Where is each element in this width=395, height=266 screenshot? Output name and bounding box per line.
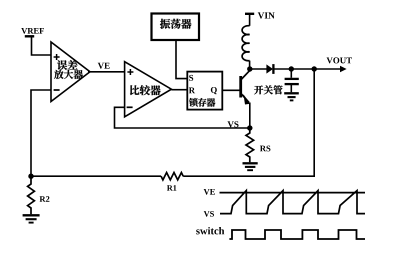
resistor RS zigzag — [246, 128, 254, 162]
label R1 — [167, 185, 176, 190]
junction dot VS node — [247, 125, 252, 130]
diode D1 triangle — [266, 64, 273, 73]
diode D1 cathode bar — [272, 64, 274, 74]
resistor R2 zigzag — [28, 176, 35, 214]
wire op-amp output VE to comparator — [88, 71, 125, 73]
transistor Q1 emitter arrowhead — [243, 94, 250, 104]
VOUT arrow — [314, 68, 341, 70]
net label VS (schematic) — [228, 121, 239, 127]
comparator + input sign — [127, 69, 133, 75]
resistor R1 zigzag — [161, 173, 183, 180]
junction dot collector node — [247, 66, 252, 71]
inductor L1 — [242, 26, 250, 61]
ground symbol at C1 — [284, 92, 299, 94]
wire VIN to inductor — [249, 14, 251, 26]
net label VOUT — [326, 57, 351, 63]
wire comparator inverting input to VS node — [115, 107, 249, 128]
wire emitter down to VS node — [249, 103, 251, 129]
label RS — [260, 146, 270, 152]
op-amp - input sign — [54, 89, 60, 91]
latch pin R — [189, 88, 195, 94]
op-amp U1 error amplifier body — [51, 42, 90, 102]
wire VOUT node down right side to bottom rail — [183, 69, 314, 176]
ground symbol at RS — [243, 162, 258, 164]
wire diode to output node — [273, 68, 314, 70]
wire inductor to collector node — [249, 61, 251, 69]
latch label CJK — [189, 98, 215, 107]
capacitor C1 bottom stem — [290, 85, 292, 92]
net label VE — [98, 63, 110, 69]
ground symbol at R2 — [23, 214, 40, 216]
wire feedback to inverting input — [31, 90, 52, 176]
capacitor C1 plates — [285, 78, 299, 80]
net VREF terminal bar — [25, 35, 34, 37]
op-amp label CJK error — [57, 60, 78, 70]
waveform label VE — [204, 189, 215, 195]
latch pin S — [189, 75, 193, 81]
transistor Q1 collector lead — [241, 70, 250, 80]
wire VREF to op-amp noninverting input — [32, 36, 52, 55]
wire latch Q output to transistor base — [222, 89, 240, 91]
comparator - input sign — [127, 106, 133, 108]
transistor Q1 base bar — [239, 76, 242, 98]
net VIN terminal bar — [245, 13, 254, 15]
comparator label CJK — [130, 85, 161, 95]
wire R1 to divider node — [31, 175, 161, 177]
latch pin Q — [211, 87, 217, 94]
net label VIN — [258, 12, 275, 18]
waveform label switch — [196, 227, 224, 234]
transistor Q1 emitter lead — [241, 93, 249, 102]
op-amp + input sign — [54, 54, 60, 60]
oscillator box — [152, 14, 200, 41]
latch U3 box — [187, 72, 222, 110]
waveform VE level line — [220, 192, 366, 194]
waveform label VS — [204, 211, 214, 217]
comparator U2 body — [125, 62, 172, 117]
waveform VS sawtooth — [220, 191, 365, 214]
waveform switch square wave — [229, 230, 365, 239]
wire comparator output to latch R input — [171, 89, 187, 91]
wire node to diode anode — [250, 68, 267, 70]
junction dot VOUT takeoff — [312, 66, 317, 71]
capacitor C1 top stem — [290, 69, 292, 78]
label R2 — [40, 196, 50, 202]
net label VREF — [21, 28, 44, 34]
wire oscillator to latch S input — [176, 41, 187, 79]
op-amp label CJK amplifier — [54, 70, 83, 79]
transistor label CJK switch tube — [254, 85, 283, 94]
junction dot filter cap — [289, 66, 294, 71]
junction dot divider node — [28, 174, 33, 179]
oscillator label CJK — [160, 19, 191, 29]
